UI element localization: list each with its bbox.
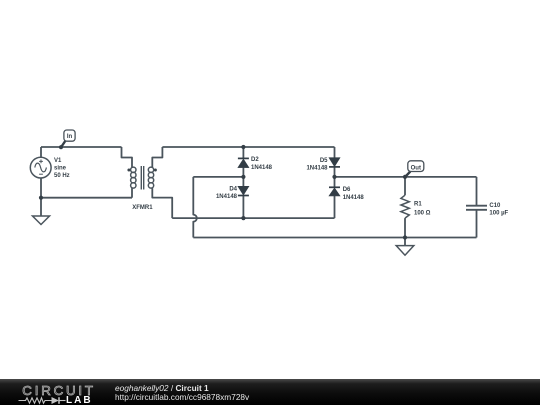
ground below V1 (33, 216, 50, 225)
wire D5 anode lead (334, 147, 336, 158)
wire R1 top lead (404, 177, 406, 195)
flag In (61, 130, 75, 147)
diode D6 (329, 187, 340, 196)
phase dot left (127, 169, 130, 172)
svg-text:sine: sine (54, 166, 67, 172)
svg-text:1N4148: 1N4148 (251, 165, 273, 171)
wire mid-left junction to left vertical (193, 176, 243, 178)
junction dot Out / R1 top (403, 175, 407, 179)
svg-text:V1: V1 (54, 158, 62, 164)
label V1 sine 50 Hz (54, 158, 70, 179)
wire D6 anode lead (334, 196, 336, 218)
wire V1 top lead (40, 147, 42, 157)
svg-text:D6: D6 (343, 187, 351, 193)
label D6 1N4148 (343, 187, 365, 201)
wire R1 bottom lead (404, 218, 406, 237)
svg-text:XFMR1: XFMR1 (132, 205, 153, 211)
svg-text:In: In (67, 134, 73, 140)
svg-text:1N4148: 1N4148 (216, 194, 238, 200)
diode D5 (329, 158, 340, 167)
wire D2 cathode lead from top rail (242, 147, 244, 158)
wire XFMR1 primary top step (122, 147, 133, 167)
svg-text:C10: C10 (489, 203, 501, 209)
diode D4 (238, 186, 249, 195)
svg-text:100 Ω: 100 Ω (414, 211, 431, 217)
wire D2 anode to D4 anode (mid-left junction) (242, 168, 244, 187)
label D5 1N4148 (306, 158, 328, 172)
junction dot top rail / D2 (241, 145, 245, 149)
svg-text:D5: D5 (320, 158, 328, 164)
label D2 1N4148 (251, 157, 273, 171)
wire D5 cathode to D6 cathode through mid-right junction (334, 167, 336, 188)
junction dot In (59, 145, 63, 149)
wire V1 bottom lead to ground (40, 178, 42, 216)
junction dot V1 bottom (39, 196, 43, 200)
svg-text:Out: Out (411, 165, 421, 171)
wire top rail right (XFMR1 to diode branches) (162, 146, 334, 148)
phase dot right (154, 169, 157, 172)
footer bar (0, 379, 540, 405)
wire bottom primary return (V1 to XFMR1) (41, 197, 132, 199)
wire bottom secondary rail y=218 (172, 217, 334, 219)
junction dot left branch mid (241, 175, 245, 179)
wire bottom rail y=237.5 (193, 237, 476, 239)
wire XFMR1 secondary bottom staircase (152, 188, 172, 218)
svg-text:1N4148: 1N4148 (306, 166, 328, 172)
wire C10 bottom lead (476, 210, 478, 237)
resistor R1 (401, 195, 409, 218)
svg-text:1N4148: 1N4148 (343, 195, 365, 201)
CircuitLab logo (0, 379, 110, 405)
wire C10 top lead (476, 177, 478, 205)
svg-text:50 Hz: 50 Hz (54, 173, 70, 179)
wire D4 cathode lead (242, 196, 244, 219)
wire output rail y=176.5 (335, 176, 477, 178)
capacitor C10 (466, 206, 487, 210)
logo resistor (19, 398, 52, 403)
svg-text:R1: R1 (414, 202, 422, 208)
label C10 100 uF (489, 203, 508, 217)
junction dot right branch mid (332, 175, 336, 179)
svg-text:D4: D4 (229, 187, 237, 193)
wire left vertical with hop over y=218 rail (193, 177, 197, 238)
flag Out (405, 161, 424, 177)
svg-text:D2: D2 (251, 157, 259, 163)
footer text line 1 (115, 383, 209, 393)
wire XFMR1 primary bottom lead (131, 188, 133, 198)
label R1 100 Ohm (414, 202, 431, 217)
footer text line 2 (115, 392, 249, 402)
wire XFMR1 secondary top step (152, 147, 162, 167)
label D4 1N4148 (216, 187, 238, 201)
svg-text:LAB: LAB (66, 395, 93, 405)
diode D2 (238, 158, 249, 167)
junction dot left branch bottom (241, 216, 245, 220)
voltage source V1 (30, 157, 51, 178)
ground below R1 (396, 246, 414, 256)
wire top rail left (V1 to XFMR1 primary) (41, 146, 122, 148)
logo diode (52, 397, 59, 404)
wire R1 to ground (404, 238, 406, 246)
junction dot R1 bottom (403, 235, 407, 239)
transformer XFMR1 (131, 166, 154, 190)
svg-text:100 µF: 100 µF (489, 211, 508, 217)
